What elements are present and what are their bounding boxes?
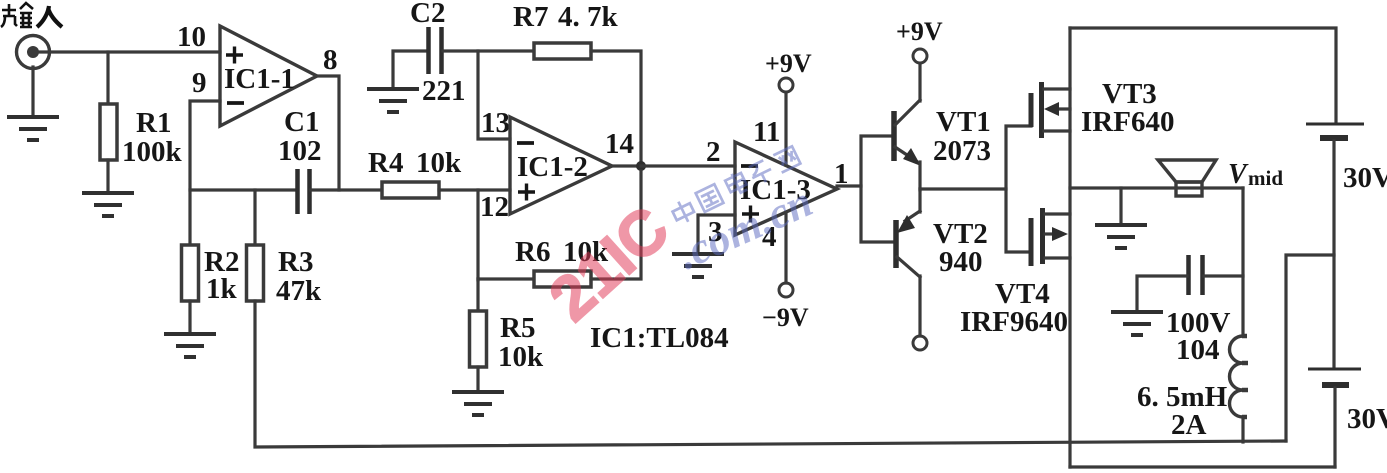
svg-text:8: 8 xyxy=(323,44,338,76)
wire pin11 up xyxy=(784,93,787,165)
svg-text:R5: R5 xyxy=(500,312,535,344)
battery B2 30V xyxy=(1308,369,1361,385)
svg-text:10: 10 xyxy=(177,21,206,53)
watermark 21IC (red) xyxy=(537,193,683,334)
svg-text:IC1-1: IC1-1 xyxy=(224,63,295,95)
svg-text:+9V: +9V xyxy=(896,17,943,46)
svg-text:C2: C2 xyxy=(410,0,445,29)
wire pin1 to bases xyxy=(837,184,861,187)
svg-text:mid: mid xyxy=(1248,166,1283,190)
wire C2 right to R7 xyxy=(443,49,534,52)
wire R4 to IC1-2 pin12 xyxy=(439,188,510,191)
svg-text:30V: 30V xyxy=(1347,403,1387,435)
ground (R5) xyxy=(452,392,504,415)
svg-text:47k: 47k xyxy=(276,275,322,307)
svg-text:2073: 2073 xyxy=(933,135,991,167)
wire top rail +30V xyxy=(1070,28,1336,122)
svg-text:14: 14 xyxy=(605,128,634,160)
wire inductor bottom to rail xyxy=(1241,417,1244,442)
capacitor C2 xyxy=(429,27,442,74)
ground (R1) xyxy=(82,193,134,216)
svg-text:13: 13 xyxy=(481,107,510,139)
wire battery mid tap xyxy=(1286,255,1334,441)
input connector J1 xyxy=(17,36,50,69)
wire pin8 output down to node xyxy=(317,76,339,190)
wire connector to ground xyxy=(31,67,34,117)
svg-text:104: 104 xyxy=(1176,334,1220,366)
wire input to pin10 xyxy=(38,50,220,53)
svg-text:R4: R4 xyxy=(368,147,403,179)
wire main output column xyxy=(1068,28,1071,467)
svg-text:10k: 10k xyxy=(416,147,462,179)
wire pin9 stub xyxy=(190,101,220,245)
wire node row right of C1 xyxy=(311,188,382,191)
svg-text:100k: 100k xyxy=(122,136,183,168)
ground (IC1-3 pin3) xyxy=(672,254,724,277)
svg-text:IC1-2: IC1-2 xyxy=(517,151,588,183)
ground (R2) xyxy=(164,334,216,357)
svg-text:940: 940 xyxy=(939,246,983,278)
terminal +9V (IC1-3) xyxy=(779,78,793,92)
svg-text:R1: R1 xyxy=(136,107,171,139)
capacitor C1 xyxy=(298,169,310,214)
terminal -9V xyxy=(779,283,793,297)
svg-text:1k: 1k xyxy=(206,273,238,305)
op-amp U1 IC1-3 xyxy=(735,142,837,235)
wire speaker ground tap xyxy=(1119,188,1122,225)
svg-text:IRF640: IRF640 xyxy=(1081,106,1174,138)
wire VT1 collector up xyxy=(918,64,921,101)
wire VT2 emitter up xyxy=(918,189,921,212)
resistor R6 xyxy=(534,271,591,287)
wire C2 left xyxy=(393,51,427,89)
capacitor C 100V 104 xyxy=(1189,255,1203,295)
svg-text:V: V xyxy=(1228,159,1249,190)
wire R5 bottom xyxy=(476,367,479,392)
wire IC1-2 out to node dot xyxy=(612,164,641,167)
wire R5 top xyxy=(476,279,479,311)
svg-text:IRF9640: IRF9640 xyxy=(960,306,1068,338)
svg-text:9: 9 xyxy=(192,67,207,99)
label 输入 (input) xyxy=(1,3,62,27)
ground (C2) xyxy=(367,89,419,112)
svg-text:R3: R3 xyxy=(278,246,313,278)
svg-text:C1: C1 xyxy=(284,106,319,138)
svg-text:R7: R7 xyxy=(513,1,548,33)
transistor Q VT2 (PNP 940) xyxy=(896,211,920,277)
svg-text:R6: R6 xyxy=(515,236,550,268)
svg-text:102: 102 xyxy=(278,135,322,167)
transistor Q VT1 (NPN 2073) xyxy=(894,100,921,166)
wire R6 right up to node xyxy=(591,171,641,279)
wire R1 bottom xyxy=(106,160,109,193)
wire R6 left xyxy=(478,277,534,280)
svg-text:4. 7k: 4. 7k xyxy=(558,1,619,33)
wire bottom rail -30V xyxy=(1070,465,1335,468)
wire cap right xyxy=(1204,274,1243,277)
node junction dot xyxy=(636,161,646,171)
svg-text:VT1: VT1 xyxy=(936,106,991,138)
wire R3 top xyxy=(253,190,256,245)
wire R3 bottom feedback to bottom rail xyxy=(255,301,1286,447)
wire battery B2 bottom xyxy=(1333,388,1336,467)
inductor L 6.5mH xyxy=(1230,336,1244,417)
terminal VT2 bottom xyxy=(913,336,927,350)
svg-text:2: 2 xyxy=(706,136,721,168)
wire pin4 down xyxy=(784,212,787,283)
wire node row left xyxy=(190,188,296,191)
wire R7 right xyxy=(591,51,641,166)
terminal +9V (VT1) xyxy=(913,49,927,63)
ground (cap 100V) xyxy=(1111,312,1163,335)
wire gate bracket VT3/VT4 xyxy=(1006,126,1031,252)
resistor R5 xyxy=(470,311,487,367)
wire R2 bottom xyxy=(188,301,191,334)
wire node to IC1-3 pin2 xyxy=(641,164,735,167)
op-amp U1 IC1-1 xyxy=(220,26,317,126)
svg-text:−9V: −9V xyxy=(762,303,809,332)
resistor R1 xyxy=(100,104,117,160)
svg-text:IC1:TL084: IC1:TL084 xyxy=(590,322,729,354)
wire pin12 drop to R5/R6 node xyxy=(476,190,479,280)
wire VT1 emitter to output row xyxy=(918,162,921,190)
svg-text:12: 12 xyxy=(480,191,509,223)
speaker BL xyxy=(1158,160,1216,196)
wire battery mid column xyxy=(1332,141,1335,368)
ground (output mid) xyxy=(1095,225,1147,248)
resistor R3 xyxy=(247,245,264,301)
ground (input connector) xyxy=(7,117,59,140)
op-amp U1 IC1-2 xyxy=(510,117,612,214)
wire base bracket VT1/VT2 xyxy=(861,136,896,242)
wire pin13 drop xyxy=(478,51,510,139)
MOSFET VT4 (IRF9640) xyxy=(1031,208,1070,266)
MOSFET VT3 (IRF640) xyxy=(1031,82,1070,138)
watermark 21ic.com.cn (blue) xyxy=(670,177,819,279)
svg-text:11: 11 xyxy=(753,116,780,148)
battery B1 30V xyxy=(1306,124,1364,138)
wire pin3 to ground xyxy=(698,215,735,254)
svg-text:30V: 30V xyxy=(1343,162,1387,194)
wire cap left to ground xyxy=(1137,276,1187,312)
wire emitters to gate bracket xyxy=(920,187,1006,190)
svg-text:221: 221 xyxy=(422,75,466,107)
resistor R4 xyxy=(382,182,439,198)
watermark 中国电子网 (blue) xyxy=(669,145,802,226)
resistor R2 xyxy=(182,245,199,301)
svg-text:10k: 10k xyxy=(498,341,544,373)
svg-text:+9V: +9V xyxy=(765,49,812,78)
wire speaker right down xyxy=(1241,188,1244,336)
wire output row to speaker xyxy=(1070,186,1243,189)
wire R1 top xyxy=(106,52,109,104)
wire VT2 collector down xyxy=(918,276,921,336)
resistor R7 xyxy=(534,43,591,59)
svg-text:2A: 2A xyxy=(1171,409,1207,441)
